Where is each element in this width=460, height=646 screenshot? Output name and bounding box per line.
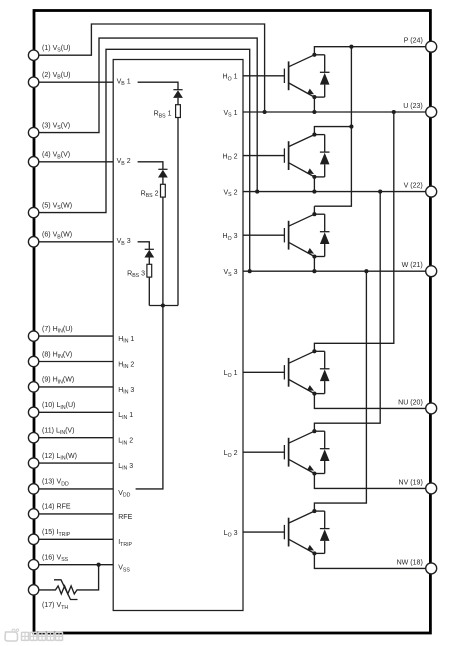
node U line to Q4 tap: [392, 110, 396, 114]
svg-text:VS 1: VS 1: [223, 110, 237, 119]
wire pin 14 RFE to IC: [39, 513, 113, 515]
node Q6 emitter: [312, 551, 316, 555]
wire Q2 emitter drop: [313, 177, 315, 192]
svg-text:U (23): U (23): [403, 103, 423, 110]
IGBT Q2 (high-side V): [284, 135, 314, 177]
resistor RBS2: [161, 184, 166, 197]
svg-text:(3) VS(V): (3) VS(V): [42, 122, 70, 131]
wire V phase to Q5 collector: [314, 192, 380, 432]
svg-text:(17) VTH: (17) VTH: [42, 602, 68, 611]
svg-text:LO 2: LO 2: [224, 450, 238, 459]
wire pin 15 ITRIP to IC: [39, 538, 113, 540]
wire RBS2 to common node: [162, 197, 164, 305]
node Q4 collector: [312, 349, 316, 353]
svg-text:(15) ITRIP: (15) ITRIP: [42, 529, 71, 538]
svg-text:(9) HIN(W): (9) HIN(W): [42, 377, 74, 386]
wire pin 6 VB(W) to IC: [39, 241, 113, 243]
bootstrap diode DBS3: [144, 249, 154, 264]
svg-text:HIN 3: HIN 3: [118, 387, 134, 396]
svg-text:(11) LIN(V): (11) LIN(V): [42, 428, 74, 437]
wire gate lead Q6: [243, 531, 284, 533]
pin 12 LIN(W) terminal: [28, 453, 77, 468]
node Q1 emitter: [312, 95, 316, 99]
pin 11 LIN(V) terminal: [28, 428, 74, 443]
pin 7 HIN(U) terminal: [28, 326, 72, 341]
pin 15 ITRIP terminal: [28, 529, 70, 544]
node Q2 emitter: [312, 175, 316, 179]
wire gate lead Q5: [243, 451, 284, 453]
wire pin 2 VB(U) to IC: [39, 81, 113, 83]
svg-text:VB 2: VB 2: [117, 158, 131, 167]
wire Q3 emitter drop: [313, 257, 315, 272]
IGBT Q5 (low-side V): [284, 431, 314, 473]
pin 10 LIN(U) terminal: [28, 402, 75, 417]
pin 14 RFE terminal: [28, 504, 70, 519]
svg-text:(5) VS(W): (5) VS(W): [42, 202, 72, 211]
svg-text:ITRIP: ITRIP: [118, 539, 132, 548]
wire pin 16 VSS to IC: [39, 564, 113, 566]
freewheel diode D1 across Q1: [314, 55, 329, 97]
node Q5 collector: [312, 429, 316, 433]
wire W phase to Q6 collector: [314, 271, 366, 511]
wire pin 11 LIN(V) to IC: [39, 437, 113, 439]
wire pin 7 HIN(U) to IC: [39, 335, 113, 337]
wire Q3 collector riser: [313, 206, 315, 214]
thermistor RTH temperature strike: [54, 580, 78, 600]
svg-text:(10) LIN(U): (10) LIN(U): [42, 402, 75, 411]
wire NU line from Q4 emitter: [314, 394, 430, 409]
thermistor RTH zigzag and wire to VSS node: [39, 565, 99, 594]
pin P terminal: [404, 38, 437, 53]
wire net VS(W): pin 5 over top to VS3 node: [39, 49, 250, 271]
wire Q2 collector to P bus: [314, 127, 351, 135]
IGBT Q3 (high-side W): [284, 214, 314, 256]
wire VB1 to bootstrap diode: [138, 82, 178, 90]
node P bus to Q2 tap: [349, 125, 353, 129]
freewheel diode D3 across Q3: [314, 214, 329, 256]
wire P rail from Q1 collector to pin P: [314, 47, 430, 55]
node VS(U) junction on VS1 line: [263, 110, 267, 114]
node VS(V) junction on VS2 line: [255, 190, 259, 194]
svg-text:RFE: RFE: [118, 514, 132, 521]
pin W terminal: [402, 262, 437, 277]
svg-text:LO 3: LO 3: [224, 530, 238, 539]
wire pin 13 VDD to IC: [39, 488, 113, 490]
wire Q1 emitter drop: [313, 97, 315, 112]
wire net VS(V): pin 3 over top to VS2 node: [39, 38, 257, 192]
IGBT Q4 (low-side U): [284, 351, 314, 393]
pin 3 VS(V) terminal: [28, 122, 70, 137]
resistor RBS3: [147, 264, 152, 277]
svg-text:HO 2: HO 2: [222, 154, 237, 163]
svg-text:NU (20): NU (20): [398, 399, 423, 406]
svg-text:(6) VB(W): (6) VB(W): [42, 232, 72, 241]
pin NU terminal: [398, 399, 437, 414]
pin 9 HIN(W) terminal: [28, 377, 74, 392]
resistor RBS1: [176, 105, 181, 118]
svg-text:(2) VB(U): (2) VB(U): [42, 72, 71, 81]
svg-text:(14) RFE: (14) RFE: [42, 504, 71, 511]
node Q3 emitter: [312, 254, 316, 258]
freewheel diode D4 across Q4: [314, 351, 329, 393]
svg-text:HO 1: HO 1: [222, 74, 237, 83]
freewheel diode D6 across Q6: [314, 511, 329, 553]
wire P bus vertical: [314, 47, 351, 207]
wire VS2 / V phase line: [243, 191, 430, 193]
IGBT Q1 (high-side U): [284, 55, 314, 97]
svg-text:HIN 2: HIN 2: [118, 361, 134, 370]
wire bootstrap common to VDD: [136, 306, 163, 489]
pin 6 VB(W) terminal: [28, 232, 72, 247]
pin 13 VDD terminal: [28, 479, 69, 494]
pin 17 VTH terminal: [28, 585, 68, 611]
wire gate lead Q3: [243, 234, 284, 236]
pin 2 VB(U) terminal: [28, 72, 70, 87]
svg-text:(1) VS(U): (1) VS(U): [42, 45, 71, 54]
wire net VS(U): pin 1 over top to VS1 node: [39, 24, 265, 112]
svg-text:LIN 3: LIN 3: [118, 463, 133, 472]
svg-text:(12) LIN(W): (12) LIN(W): [42, 453, 77, 462]
wire pin 9 HIN(W) to IC: [39, 386, 113, 388]
freewheel diode D5 across Q5: [314, 431, 329, 473]
node VS(W) junction on VS3 line: [248, 269, 252, 273]
wire VB3 to bootstrap diode: [138, 242, 150, 250]
wire NW line from Q6 emitter: [314, 553, 430, 568]
svg-text:HO 3: HO 3: [222, 233, 237, 242]
wire VS1 / U phase line: [243, 111, 430, 113]
pin NW terminal: [397, 559, 437, 574]
svg-text:RBS 1: RBS 1: [154, 111, 172, 120]
bootstrap diode DBS1: [173, 90, 183, 105]
svg-text:HIN 1: HIN 1: [118, 336, 134, 345]
pin 16 VSS terminal: [28, 555, 68, 570]
wire gate lead Q2: [243, 155, 284, 157]
pin 4 VB(V) terminal: [28, 152, 70, 167]
node Q6 collector: [312, 509, 316, 513]
pin 8 HIN(V) terminal: [28, 351, 72, 366]
node Q2 emitter to V line: [312, 190, 316, 194]
node Q1 collector: [312, 53, 316, 57]
pin 1 VS(U) terminal: [28, 45, 70, 60]
wire pin 10 LIN(U) to IC: [39, 411, 113, 413]
svg-text:VSS: VSS: [118, 565, 130, 574]
wire gate lead Q1: [243, 75, 284, 77]
svg-text:NV (19): NV (19): [399, 479, 423, 486]
node W line to Q6 tap: [364, 269, 368, 273]
svg-text:V (22): V (22): [404, 183, 423, 190]
node Q3 collector: [312, 212, 316, 216]
gate driver IC U1 box: [113, 60, 243, 611]
svg-text:VS 3: VS 3: [223, 269, 237, 278]
wire pin 8 HIN(V) to IC: [39, 361, 113, 363]
svg-text:(13) VDD: (13) VDD: [42, 479, 69, 488]
wire pin 12 LIN(W) to IC: [39, 462, 113, 464]
pin 5 VS(W) terminal: [28, 202, 72, 217]
node Q1 emitter to U line: [312, 110, 316, 114]
svg-text:RBS 2: RBS 2: [141, 190, 159, 199]
wire NV line from Q5 emitter: [314, 474, 430, 489]
svg-text:VDD: VDD: [118, 490, 130, 499]
node V line to Q5 tap: [378, 190, 382, 194]
pin U terminal: [403, 103, 436, 118]
svg-text:P (24): P (24): [404, 38, 423, 45]
pin V terminal: [404, 183, 437, 198]
svg-text:LO 1: LO 1: [224, 370, 238, 379]
pin NV terminal: [399, 479, 437, 494]
svg-text:W (21): W (21): [402, 262, 423, 269]
wire VS3 / W phase line: [243, 270, 430, 272]
svg-text:VB 1: VB 1: [117, 79, 131, 88]
svg-text:RBS 3: RBS 3: [127, 270, 145, 279]
node Q2 collector: [312, 133, 316, 137]
wire VB2 to bootstrap diode: [138, 162, 163, 170]
IGBT Q6 (low-side W): [284, 511, 314, 553]
svg-text:(8) HIN(V): (8) HIN(V): [42, 351, 72, 360]
svg-text:(7) HIN(U): (7) HIN(U): [42, 326, 73, 335]
svg-text:LIN 1: LIN 1: [118, 412, 133, 421]
wire gate lead Q4: [243, 371, 284, 373]
node bootstrap common junction: [161, 303, 165, 307]
wire pin 4 VB(V) to IC: [39, 161, 113, 163]
svg-text:LIN 2: LIN 2: [118, 438, 133, 447]
freewheel diode D2 across Q2: [314, 135, 329, 177]
node P bus tap: [349, 45, 353, 49]
wire U phase to Q4 collector: [314, 112, 393, 351]
node Q3 emitter to W line: [312, 269, 316, 273]
svg-text:(16) VSS: (16) VSS: [42, 555, 69, 564]
node Q4 emitter: [312, 392, 316, 396]
wire RBS3 to common node: [148, 277, 150, 305]
svg-text:(4) VB(V): (4) VB(V): [42, 152, 70, 161]
wire RBS1 to common node: [177, 118, 179, 306]
svg-text:VS 2: VS 2: [223, 190, 237, 199]
wire bootstrap common tie: [149, 305, 178, 307]
node Q5 emitter: [312, 471, 316, 475]
svg-text:VB 3: VB 3: [117, 238, 131, 247]
bootstrap diode DBS2: [158, 169, 168, 184]
svg-text:NW (18): NW (18): [397, 559, 423, 566]
node VSS / thermistor junction: [97, 563, 101, 567]
